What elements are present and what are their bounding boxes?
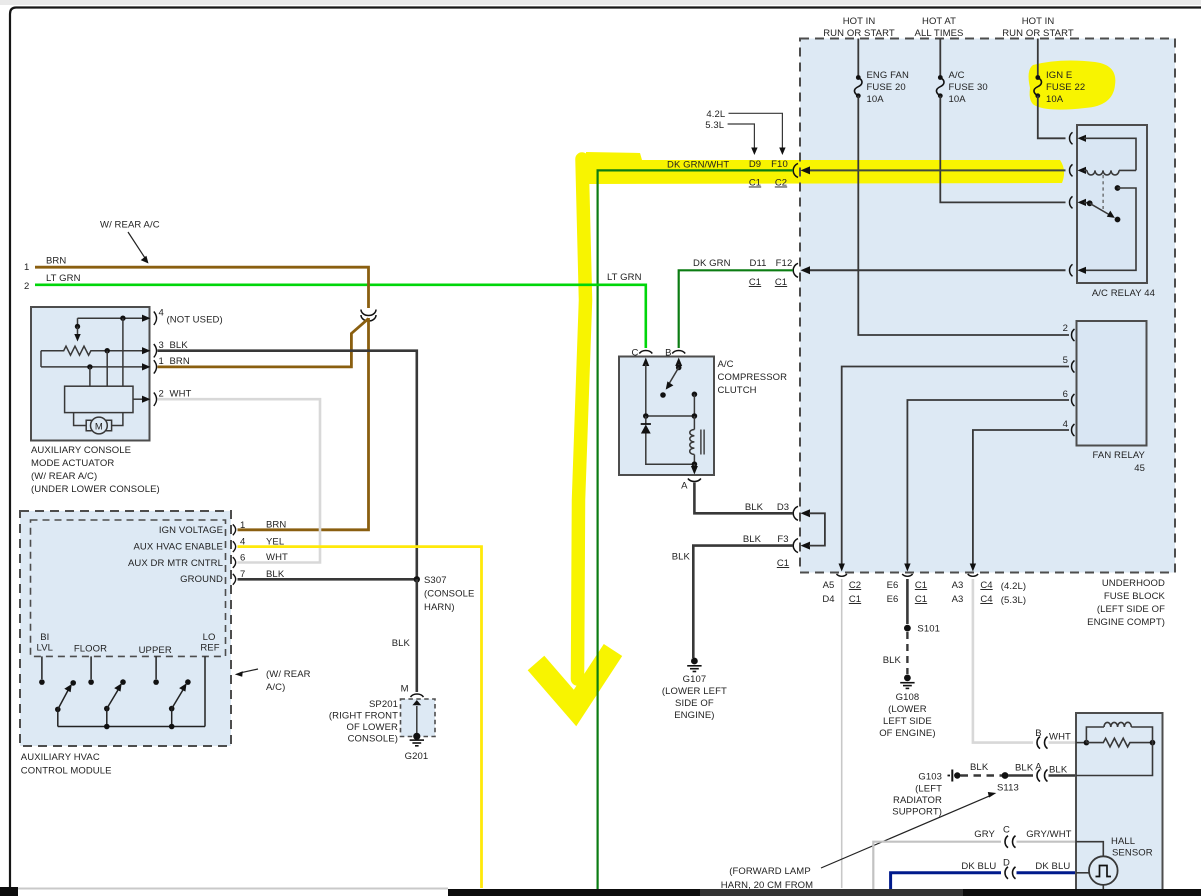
- BI LVL stub: [41, 656, 43, 679]
- svg-text:(RIGHT FRONT: (RIGHT FRONT: [329, 711, 398, 722]
- relay 44 pin 1 connector: [1070, 132, 1073, 144]
- svg-text:C1: C1: [915, 580, 927, 591]
- wire BLK S307 down to connector M: [415, 579, 418, 692]
- svg-text:D3: D3: [777, 502, 789, 513]
- svg-text:GROUND: GROUND: [180, 574, 223, 585]
- svg-text:2: 2: [1063, 323, 1068, 334]
- wire WHT connector B to hall box: [1049, 741, 1077, 744]
- wire DK BLU connector D to hall box: [1017, 871, 1077, 874]
- svg-text:A/C: A/C: [718, 359, 734, 370]
- svg-text:FUSE 20: FUSE 20: [867, 82, 906, 93]
- wire BRN branch to actuator pin 1: [158, 319, 369, 367]
- module pin 7 bracket: [233, 574, 236, 585]
- module pin 4 bracket: [233, 541, 236, 552]
- svg-text:MODE ACTUATOR: MODE ACTUATOR: [31, 458, 114, 469]
- svg-text:4.2L: 4.2L: [706, 109, 725, 120]
- svg-text:(LOWER: (LOWER: [888, 704, 927, 715]
- actuator pin 2 line: [133, 398, 146, 400]
- fuse ENG FAN FUSE 20 10A: [856, 75, 861, 80]
- svg-text:OF ENGINE): OF ENGINE): [879, 728, 935, 739]
- auxiliary HVAC control module inner dashed box: [31, 520, 226, 656]
- hall sensor box fill: [1076, 713, 1163, 891]
- svg-text:BLK: BLK: [392, 638, 411, 649]
- ground G108: [904, 675, 911, 682]
- wire feed to fuse 20: [857, 39, 859, 78]
- svg-text:C1: C1: [777, 558, 789, 569]
- wire BLK dashed S101 to G108: [906, 632, 908, 674]
- svg-text:LO: LO: [203, 632, 216, 643]
- svg-text:LVL: LVL: [37, 643, 54, 654]
- svg-text:UPPER: UPPER: [139, 645, 172, 656]
- svg-text:D9: D9: [749, 159, 761, 170]
- actuator left link: [40, 351, 42, 367]
- wire fuse 22 to relay 44 pin 1: [1038, 96, 1066, 139]
- underhood fuse block dashed border: [800, 39, 1175, 573]
- svg-text:CONSOLE): CONSOLE): [348, 734, 398, 745]
- svg-text:BLK: BLK: [1049, 765, 1068, 776]
- svg-text:5: 5: [1063, 355, 1068, 366]
- svg-text:(LOWER LEFT: (LOWER LEFT: [662, 686, 727, 697]
- svg-text:(4.2L): (4.2L): [1001, 581, 1026, 592]
- wire WHT actuator pin 2 to HVAC module pin 6: [158, 399, 321, 562]
- page top gray strip: [0, 0, 1201, 5]
- svg-text:3: 3: [159, 340, 164, 351]
- svg-text:DK GRN: DK GRN: [693, 258, 731, 269]
- svg-text:A: A: [681, 481, 688, 492]
- svg-text:RUN OR START: RUN OR START: [823, 28, 895, 39]
- svg-text:5.3L: 5.3L: [705, 120, 724, 131]
- svg-text:S307: S307: [424, 575, 447, 586]
- connector D9/F10 at block edge: [793, 163, 798, 177]
- svg-text:A5: A5: [823, 580, 835, 591]
- diode: [645, 416, 647, 424]
- svg-text:FUSE 30: FUSE 30: [949, 82, 988, 93]
- wire BLK E6 exit to S101: [906, 579, 909, 624]
- A/C compressor clutch box: [619, 357, 714, 476]
- splice S113: [1002, 772, 1009, 779]
- wire GRY A5 exit down the page: [841, 579, 843, 888]
- svg-text:BRN: BRN: [170, 356, 190, 367]
- splice S101: [904, 625, 911, 632]
- A/C relay 44 box fill: [1077, 125, 1147, 283]
- auxiliary console mode actuator box fill: [31, 307, 150, 441]
- wire BLK actuator pin 3 to S307: [158, 351, 417, 577]
- bottom hairline: [18, 888, 448, 890]
- svg-text:ALL TIMES: ALL TIMES: [915, 28, 964, 39]
- arrow from harness note to S113: [821, 795, 991, 868]
- svg-text:1: 1: [24, 262, 29, 273]
- wire BLK F3 to G107: [693, 546, 793, 658]
- svg-text:A/C): A/C): [266, 682, 285, 693]
- switch common bus: [58, 726, 205, 728]
- svg-text:DK BLU: DK BLU: [961, 861, 996, 872]
- svg-text:IGN E: IGN E: [1046, 70, 1072, 81]
- wire fuse 30 to relay 44 pin 3: [940, 96, 1065, 203]
- svg-text:(NOT USED): (NOT USED): [167, 315, 223, 326]
- svg-text:F10: F10: [771, 159, 788, 170]
- wire feed to fuse 30: [939, 39, 941, 78]
- wire BLK dashed G103 to S113: [961, 774, 1003, 776]
- wire BLK HVAC module pin 7 to S307: [238, 578, 417, 581]
- clutch switch: [676, 365, 682, 371]
- wire BLK connector A to hall box: [1049, 774, 1077, 777]
- hall element lead down: [1102, 885, 1104, 891]
- SP201 internal arrow to ground: [416, 706, 418, 736]
- potentiometer wiper arrow: [77, 318, 79, 326]
- svg-text:C1: C1: [849, 594, 861, 605]
- hall link to pin A: [1076, 743, 1153, 776]
- svg-text:WHT: WHT: [1049, 732, 1071, 743]
- wire DK GRN from D11/F12 to compressor clutch pin B: [679, 270, 793, 348]
- svg-text:BLK: BLK: [745, 502, 764, 513]
- switch 2: [104, 706, 110, 712]
- actuator pin 4 line with junction: [78, 317, 147, 319]
- ground G201 symbol: [410, 739, 424, 741]
- svg-text:10A: 10A: [1046, 94, 1064, 105]
- svg-text:ENGINE): ENGINE): [674, 710, 714, 721]
- svg-text:FAN RELAY: FAN RELAY: [1093, 450, 1146, 461]
- svg-text:DK GRN/WHT: DK GRN/WHT: [667, 160, 729, 171]
- fan relay 45 box: [1077, 321, 1147, 446]
- svg-text:SP201: SP201: [369, 699, 398, 710]
- FLOOR stub: [90, 656, 92, 679]
- hall sensor box: [1076, 713, 1163, 891]
- svg-text:2: 2: [24, 281, 29, 292]
- svg-text:WHT: WHT: [266, 552, 288, 563]
- svg-text:D: D: [1003, 858, 1010, 869]
- svg-text:BI: BI: [40, 632, 49, 643]
- svg-text:LEFT SIDE: LEFT SIDE: [883, 716, 932, 727]
- A5 exit arrow and connector: [839, 564, 845, 572]
- hall wire B inside: [1076, 742, 1086, 744]
- A/C compressor clutch box fill: [619, 357, 714, 476]
- svg-text:FUSE BLOCK: FUSE BLOCK: [1104, 591, 1166, 602]
- svg-text:OF LOWER: OF LOWER: [347, 722, 399, 733]
- wire fuse 20 to fan relay pin 2: [858, 96, 1069, 335]
- svg-text:1: 1: [240, 520, 245, 531]
- wires down to motor control box: [90, 318, 123, 386]
- splice S307: [414, 576, 420, 582]
- svg-text:LT GRN: LT GRN: [607, 272, 642, 283]
- svg-text:HOT IN: HOT IN: [1022, 16, 1055, 27]
- auxiliary HVAC control module outer box fill: [20, 511, 231, 746]
- svg-text:4: 4: [1063, 419, 1068, 430]
- svg-text:10A: 10A: [949, 94, 967, 105]
- svg-text:C1: C1: [775, 277, 787, 288]
- svg-text:G103: G103: [918, 772, 942, 783]
- svg-text:(LEFT SIDE OF: (LEFT SIDE OF: [1097, 604, 1165, 615]
- wire fan relay pin 5 to A5 exit: [842, 367, 1069, 567]
- connector F3 at block edge: [793, 539, 798, 553]
- UPPER stub: [155, 656, 157, 679]
- A/C relay 44 box: [1077, 125, 1147, 283]
- inline connector pair on BRN wire: [361, 310, 376, 316]
- svg-text:BLK: BLK: [1015, 763, 1034, 774]
- hall coil parallel branch: [1086, 727, 1104, 743]
- underhood fuse block fill: [800, 39, 1175, 573]
- fan relay 45 box fill: [1077, 321, 1147, 446]
- svg-text:6: 6: [1063, 389, 1068, 400]
- wire BLK pin A to D3: [694, 483, 793, 514]
- svg-text:(W/ REAR: (W/ REAR: [266, 669, 311, 680]
- svg-text:C2: C2: [849, 580, 861, 591]
- svg-text:(W/ REAR A/C): (W/ REAR A/C): [31, 471, 97, 482]
- relay 44 switch upper contact to pin 4: [1115, 185, 1121, 191]
- wire BRN from node 1 to splice: [35, 267, 369, 308]
- svg-text:A/C: A/C: [949, 70, 965, 81]
- wire fan relay pin 4 to A3 exit: [973, 430, 1069, 566]
- svg-text:ENG FAN: ENG FAN: [867, 70, 909, 81]
- svg-text:C: C: [1003, 825, 1010, 836]
- svg-text:C1: C1: [915, 594, 927, 605]
- svg-text:AUX DR MTR CNTRL: AUX DR MTR CNTRL: [128, 558, 223, 569]
- svg-text:S101: S101: [917, 624, 940, 635]
- svg-text:(UNDER LOWER CONSOLE): (UNDER LOWER CONSOLE): [31, 484, 160, 495]
- clutch coil: [693, 416, 695, 430]
- svg-text:HOT AT: HOT AT: [922, 16, 956, 27]
- svg-text:D11: D11: [749, 258, 766, 269]
- LO REF line down to bus: [204, 656, 206, 726]
- svg-text:(CONSOLE: (CONSOLE: [424, 589, 474, 600]
- svg-text:ENGINE COMPT): ENGINE COMPT): [1087, 617, 1165, 628]
- svg-text:AUX HVAC ENABLE: AUX HVAC ENABLE: [134, 542, 224, 553]
- auxiliary console mode actuator box: [31, 307, 150, 441]
- svg-text:C4: C4: [980, 580, 992, 591]
- relay 44 pin 2 connector and coil: [1070, 164, 1073, 176]
- svg-text:(5.3L): (5.3L): [1001, 595, 1026, 606]
- svg-text:A3: A3: [952, 580, 964, 591]
- E6 exit arrow and connector: [904, 564, 910, 572]
- yellow highlighter blob over IGN E FUSE 22: [1029, 61, 1116, 110]
- svg-text:BLK: BLK: [170, 340, 189, 351]
- svg-text:RADIATOR: RADIATOR: [893, 795, 942, 806]
- svg-text:G107: G107: [683, 674, 707, 685]
- wire D9/F10 connector to relay 44 pin 2: [810, 169, 1066, 171]
- wire feed to fuse 22: [1037, 39, 1039, 78]
- wire fan relay pin 6 to E6 exit: [907, 400, 1069, 566]
- svg-text:HALL: HALL: [1111, 836, 1135, 847]
- svg-text:A/C RELAY 44: A/C RELAY 44: [1092, 288, 1155, 299]
- hall wire C inside to sensor element: [1076, 842, 1103, 856]
- fuse A/C FUSE 30 10A: [938, 75, 943, 80]
- svg-text:RUN OR START: RUN OR START: [1002, 28, 1074, 39]
- motor control box: [65, 386, 133, 412]
- svg-text:REF: REF: [200, 643, 219, 654]
- actuator pin brackets: [154, 312, 157, 325]
- junction bar: [646, 415, 695, 417]
- svg-text:SUPPORT): SUPPORT): [892, 807, 942, 818]
- svg-text:M: M: [95, 422, 103, 433]
- hall resistor: [1086, 738, 1152, 747]
- motor M symbol: [74, 413, 86, 426]
- svg-text:C4: C4: [980, 594, 992, 605]
- svg-text:UNDERHOOD: UNDERHOOD: [1102, 578, 1165, 589]
- wire DK BLU to connector D: [891, 873, 1001, 890]
- svg-text:BLK: BLK: [883, 655, 902, 666]
- wire LT GRN from node 2 to compressor clutch pin C: [35, 285, 646, 348]
- resistor in actuator: [41, 346, 146, 355]
- right contact branch: [692, 392, 698, 398]
- pin A exit arrow: [693, 464, 695, 468]
- svg-text:B: B: [665, 348, 671, 359]
- jumper wire D3 to F3: [809, 513, 825, 545]
- svg-text:C2: C2: [775, 178, 787, 189]
- svg-text:E6: E6: [887, 594, 899, 605]
- yellow highlighter vertical stroke: [578, 159, 586, 679]
- svg-text:LT GRN: LT GRN: [46, 273, 81, 284]
- fuse IGN E FUSE 22 10A: [1035, 75, 1040, 80]
- svg-text:45: 45: [1134, 463, 1145, 474]
- svg-text:BLK: BLK: [970, 762, 989, 773]
- module pin 1 bracket: [233, 524, 236, 535]
- svg-text:6: 6: [240, 553, 245, 564]
- wire GRY/WHT connector C to hall box: [1017, 841, 1077, 843]
- svg-text:BRN: BRN: [266, 520, 286, 531]
- wire YEL from HVAC module pin 4 down the page: [238, 547, 482, 888]
- wire GRY to connector C: [873, 842, 1001, 890]
- bottom black bar: [448, 889, 1201, 896]
- svg-text:WHT: WHT: [170, 389, 192, 400]
- wire BLK S113 to connector A: [1008, 774, 1033, 777]
- relay 44 pin 3 connector and switch: [1070, 196, 1073, 208]
- svg-text:4: 4: [159, 308, 164, 319]
- svg-text:C: C: [632, 348, 639, 359]
- wire DK GRN/WHT from D9/F10 down the page: [598, 170, 793, 890]
- wire D11/F12 connector to relay 44 pin 4: [810, 269, 1066, 271]
- svg-text:D4: D4: [822, 594, 834, 605]
- bottom bar gray segment: [700, 889, 963, 896]
- bottom left corner block: [0, 887, 18, 896]
- actuator pin 1 line with junction: [41, 366, 146, 368]
- svg-text:E6: E6: [887, 580, 899, 591]
- A3 exit arrow and connector: [970, 564, 976, 572]
- auxiliary HVAC control module outer dashed box: [20, 511, 231, 746]
- hall wire D inside: [1076, 872, 1089, 874]
- svg-text:IGN VOLTAGE: IGN VOLTAGE: [159, 525, 223, 536]
- svg-text:FUSE 22: FUSE 22: [1046, 82, 1085, 93]
- relay 44 pin 4 connector: [1070, 264, 1073, 276]
- svg-text:FLOOR: FLOOR: [74, 644, 107, 655]
- ground G107: [691, 658, 698, 665]
- svg-text:A3: A3: [952, 594, 964, 605]
- svg-text:C1: C1: [749, 178, 761, 189]
- svg-text:HOT IN: HOT IN: [843, 16, 876, 27]
- svg-text:CLUTCH: CLUTCH: [718, 385, 757, 396]
- svg-text:CONTROL MODULE: CONTROL MODULE: [21, 766, 112, 777]
- svg-text:BLK: BLK: [743, 534, 762, 545]
- svg-text:1: 1: [159, 356, 164, 367]
- wire BRN main branch down to HVAC module pin 1: [238, 318, 369, 530]
- yellow highlighter horizontal band over DK GRN/WHT wire: [586, 152, 1064, 184]
- switch 3: [169, 706, 175, 712]
- svg-text:W/ REAR A/C: W/ REAR A/C: [100, 220, 160, 231]
- svg-text:SENSOR: SENSOR: [1112, 848, 1153, 859]
- svg-text:COMPRESSOR: COMPRESSOR: [718, 372, 788, 383]
- wire WHT A3 exit to hall sensor pin B: [973, 579, 1033, 743]
- relay 44 coil-to-switch dashed link: [1102, 175, 1104, 209]
- connector D11/F12 at block edge: [793, 263, 798, 277]
- svg-text:G201: G201: [405, 751, 429, 762]
- label (W/ REAR A/C) with arrow: [241, 669, 259, 673]
- SP201 splice pack dashed box: [401, 699, 436, 737]
- svg-text:DK BLU: DK BLU: [1035, 861, 1070, 872]
- connector D3 at block edge with jumper: [793, 506, 798, 520]
- svg-text:F12: F12: [776, 258, 793, 269]
- SP201 splice pack box fill: [401, 699, 436, 737]
- svg-text:(LEFT: (LEFT: [915, 784, 942, 795]
- hall sensor element circle: [1089, 856, 1118, 885]
- svg-text:HARN): HARN): [424, 602, 455, 613]
- yellow highlighter arrowhead chevron: [536, 650, 613, 708]
- svg-text:GRY/WHT: GRY/WHT: [1026, 829, 1071, 840]
- svg-text:S113: S113: [997, 783, 1019, 794]
- svg-text:10A: 10A: [867, 94, 885, 105]
- svg-text:SIDE OF: SIDE OF: [675, 698, 714, 709]
- svg-text:C1: C1: [749, 277, 761, 288]
- svg-text:2: 2: [159, 389, 164, 400]
- svg-text:G108: G108: [896, 692, 920, 703]
- module pin 6 bracket: [233, 557, 236, 568]
- svg-text:M: M: [401, 684, 409, 695]
- svg-text:BRN: BRN: [46, 256, 66, 267]
- svg-text:AUXILIARY HVAC: AUXILIARY HVAC: [21, 752, 100, 763]
- svg-text:AUXILIARY CONSOLE: AUXILIARY CONSOLE: [31, 445, 131, 456]
- svg-text:F3: F3: [777, 534, 788, 545]
- switch 1: [55, 707, 61, 713]
- svg-text:GRY: GRY: [974, 829, 995, 840]
- svg-text:(FORWARD LAMP: (FORWARD LAMP: [729, 866, 811, 877]
- svg-text:BLK: BLK: [672, 552, 691, 563]
